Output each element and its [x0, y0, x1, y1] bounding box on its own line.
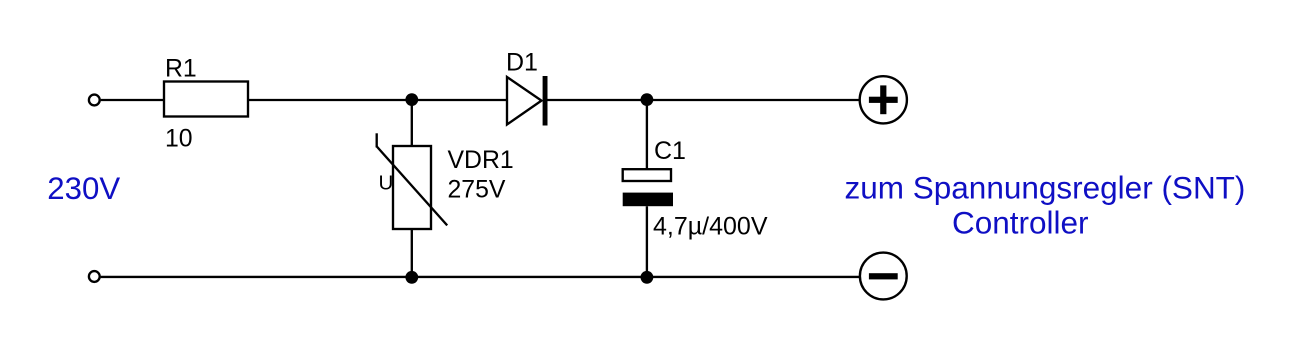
wire diode cathode to plus terminal [548, 99, 860, 101]
svg-text:U: U [379, 172, 394, 195]
svg-text:C1: C1 [654, 137, 686, 165]
bottom rail wire [101, 276, 860, 278]
diode D1 [507, 76, 548, 126]
wire C1 to bottom rail [646, 206, 648, 277]
resistor R1 [164, 82, 248, 117]
svg-text:Controller: Controller [952, 204, 1089, 240]
wire VDR1 to bottom rail [411, 229, 413, 277]
wire input to R1 [101, 99, 164, 101]
capacitor C1 [623, 169, 673, 206]
svg-text:zum Spannungsregler (SNT): zum Spannungsregler (SNT) [845, 170, 1246, 206]
svg-text:VDR1: VDR1 [448, 147, 514, 174]
node junction bottom at VDR [405, 271, 418, 284]
wire R1 to diode anode [248, 99, 507, 101]
svg-text:275V: 275V [448, 177, 506, 204]
terminal (input, bottom-left) [89, 271, 100, 282]
terminal plus (output) [860, 76, 907, 123]
wire top node down to C1 [646, 100, 648, 169]
varistor VDR1 [377, 133, 448, 229]
svg-text:4,7µ/400V: 4,7µ/400V [653, 212, 768, 240]
svg-text:R1: R1 [165, 55, 197, 82]
wire top node down to VDR1 [411, 100, 413, 146]
svg-text:230V: 230V [47, 171, 120, 206]
terminal minus (output) [860, 253, 907, 300]
terminal (input, top-left) [89, 95, 100, 106]
node junction top at VDR [405, 93, 418, 106]
svg-text:10: 10 [165, 126, 193, 153]
node junction bottom at C1 [641, 271, 654, 284]
svg-text:D1: D1 [506, 48, 538, 76]
node junction top at C1 [641, 93, 654, 106]
